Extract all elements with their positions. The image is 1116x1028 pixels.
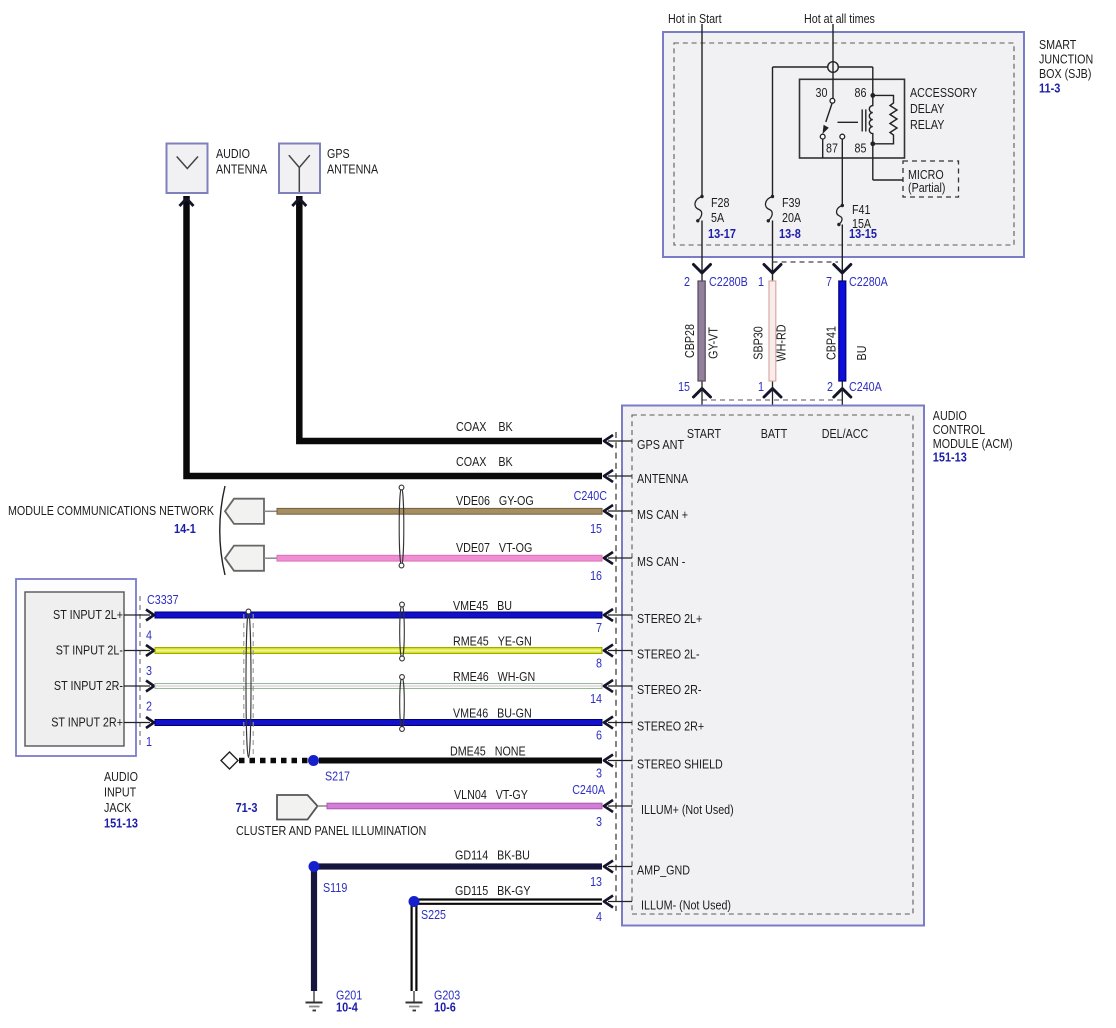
svg-text:87: 87 bbox=[826, 141, 838, 156]
svg-text:DME45 NONE: DME45 NONE bbox=[450, 744, 526, 759]
svg-text:RME45 YE-GN: RME45 YE-GN bbox=[453, 634, 532, 649]
svg-text:71-3: 71-3 bbox=[236, 800, 258, 815]
svg-text:F28: F28 bbox=[711, 195, 730, 210]
svg-text:S119: S119 bbox=[323, 880, 347, 895]
svg-text:13-15: 13-15 bbox=[849, 226, 877, 241]
svg-text:ANTENNA: ANTENNA bbox=[327, 162, 378, 177]
svg-text:C3337: C3337 bbox=[147, 592, 179, 607]
svg-text:15: 15 bbox=[590, 521, 602, 536]
svg-text:C240A: C240A bbox=[572, 782, 605, 797]
svg-text:13: 13 bbox=[590, 874, 602, 889]
svg-text:F41: F41 bbox=[852, 202, 871, 217]
svg-text:1: 1 bbox=[758, 274, 764, 289]
svg-text:C2280A: C2280A bbox=[849, 274, 888, 289]
svg-text:ILLUM- (Not Used): ILLUM- (Not Used) bbox=[641, 898, 731, 913]
svg-text:13-17: 13-17 bbox=[708, 226, 736, 241]
svg-text:BOX (SJB): BOX (SJB) bbox=[1039, 66, 1091, 81]
svg-text:F39: F39 bbox=[782, 195, 801, 210]
svg-text:151-13: 151-13 bbox=[104, 816, 138, 831]
svg-text:2: 2 bbox=[684, 274, 690, 289]
svg-text:CBP41: CBP41 bbox=[824, 326, 839, 360]
svg-text:BU: BU bbox=[854, 346, 869, 361]
svg-text:DEL/ACC: DEL/ACC bbox=[822, 426, 869, 441]
svg-text:VDE06 GY-OG: VDE06 GY-OG bbox=[456, 493, 534, 508]
svg-text:(Partial): (Partial) bbox=[908, 180, 946, 195]
svg-text:BATT: BATT bbox=[761, 426, 788, 441]
svg-text:ST INPUT 2R+: ST INPUT 2R+ bbox=[51, 715, 123, 730]
svg-text:CLUSTER AND PANEL ILLUMINATION: CLUSTER AND PANEL ILLUMINATION bbox=[236, 823, 426, 838]
svg-text:5A: 5A bbox=[711, 210, 724, 225]
svg-text:SMART: SMART bbox=[1039, 37, 1076, 52]
svg-text:START: START bbox=[687, 426, 721, 441]
svg-text:ACCESSORY: ACCESSORY bbox=[910, 85, 977, 100]
svg-text:STEREO 2R-: STEREO 2R- bbox=[637, 682, 701, 697]
svg-text:8: 8 bbox=[596, 656, 602, 671]
svg-text:WH-RD: WH-RD bbox=[774, 325, 789, 362]
svg-text:JUNCTION: JUNCTION bbox=[1039, 52, 1093, 67]
svg-text:15: 15 bbox=[678, 379, 690, 394]
svg-text:SBP30: SBP30 bbox=[751, 326, 766, 359]
svg-text:Hot at all times: Hot at all times bbox=[804, 11, 875, 26]
svg-text:MODULE COMMUNICATIONS NETWORK: MODULE COMMUNICATIONS NETWORK bbox=[8, 503, 214, 518]
svg-text:VLN04 VT-GY: VLN04 VT-GY bbox=[454, 787, 528, 802]
svg-text:MS CAN -: MS CAN - bbox=[637, 554, 685, 569]
svg-text:ANTENNA: ANTENNA bbox=[216, 162, 267, 177]
svg-text:1: 1 bbox=[758, 379, 764, 394]
svg-text:AMP_GND: AMP_GND bbox=[637, 863, 690, 878]
svg-text:2: 2 bbox=[827, 379, 833, 394]
svg-text:VME45 BU: VME45 BU bbox=[453, 598, 512, 613]
svg-text:ST INPUT 2R-: ST INPUT 2R- bbox=[54, 678, 123, 693]
svg-text:STEREO SHIELD: STEREO SHIELD bbox=[637, 757, 723, 772]
svg-text:20A: 20A bbox=[782, 210, 801, 225]
svg-text:C240C: C240C bbox=[574, 488, 607, 503]
svg-text:7: 7 bbox=[826, 274, 832, 289]
svg-text:GY-VT: GY-VT bbox=[706, 327, 721, 359]
svg-text:10-4: 10-4 bbox=[336, 1000, 359, 1015]
svg-text:30: 30 bbox=[816, 85, 828, 100]
svg-text:AUDIO: AUDIO bbox=[933, 408, 967, 423]
svg-text:GD115 BK-GY: GD115 BK-GY bbox=[455, 883, 531, 898]
svg-text:STEREO 2L-: STEREO 2L- bbox=[637, 647, 700, 662]
svg-text:AUDIO: AUDIO bbox=[104, 769, 138, 784]
svg-text:14-1: 14-1 bbox=[174, 521, 196, 536]
svg-text:COAX BK: COAX BK bbox=[456, 419, 513, 434]
svg-text:3: 3 bbox=[596, 814, 602, 829]
svg-text:6: 6 bbox=[596, 728, 602, 743]
svg-text:C2280B: C2280B bbox=[709, 274, 748, 289]
svg-text:JACK: JACK bbox=[104, 800, 132, 815]
svg-text:STEREO 2R+: STEREO 2R+ bbox=[637, 719, 704, 734]
svg-text:ANTENNA: ANTENNA bbox=[637, 471, 688, 486]
svg-text:16: 16 bbox=[590, 568, 602, 583]
svg-text:1: 1 bbox=[146, 734, 152, 749]
svg-text:ST INPUT 2L+: ST INPUT 2L+ bbox=[53, 607, 123, 622]
svg-text:ILLUM+ (Not Used): ILLUM+ (Not Used) bbox=[641, 802, 734, 817]
svg-text:3: 3 bbox=[596, 766, 602, 781]
svg-text:DELAY: DELAY bbox=[910, 101, 945, 116]
svg-text:3: 3 bbox=[146, 663, 152, 678]
svg-text:14: 14 bbox=[590, 691, 602, 706]
svg-text:7: 7 bbox=[596, 620, 602, 635]
svg-text:11-3: 11-3 bbox=[1039, 81, 1060, 96]
svg-text:S225: S225 bbox=[421, 907, 446, 922]
svg-text:151-13: 151-13 bbox=[933, 450, 967, 465]
svg-text:COAX BK: COAX BK bbox=[456, 454, 513, 469]
svg-text:ST INPUT 2L-: ST INPUT 2L- bbox=[56, 643, 123, 658]
svg-text:RELAY: RELAY bbox=[910, 117, 945, 132]
svg-text:Hot in Start: Hot in Start bbox=[668, 11, 722, 26]
svg-text:2: 2 bbox=[146, 699, 152, 714]
svg-text:CBP28: CBP28 bbox=[682, 324, 697, 358]
svg-text:AUDIO: AUDIO bbox=[216, 146, 250, 161]
svg-text:85: 85 bbox=[855, 141, 867, 156]
svg-text:RME46 WH-GN: RME46 WH-GN bbox=[453, 669, 535, 684]
svg-text:STEREO 2L+: STEREO 2L+ bbox=[637, 611, 702, 626]
svg-text:86: 86 bbox=[855, 85, 867, 100]
svg-text:4: 4 bbox=[596, 909, 602, 924]
svg-text:VDE07 VT-OG: VDE07 VT-OG bbox=[456, 540, 532, 555]
svg-text:GPS ANT: GPS ANT bbox=[637, 437, 684, 452]
svg-text:GD114 BK-BU: GD114 BK-BU bbox=[455, 848, 530, 863]
svg-text:INPUT: INPUT bbox=[104, 785, 136, 800]
svg-text:VME46 BU-GN: VME46 BU-GN bbox=[453, 706, 532, 721]
svg-text:MS CAN +: MS CAN + bbox=[637, 507, 688, 522]
svg-text:13-8: 13-8 bbox=[779, 226, 801, 241]
svg-text:CONTROL: CONTROL bbox=[933, 422, 985, 437]
svg-text:S217: S217 bbox=[325, 769, 350, 784]
svg-text:GPS: GPS bbox=[327, 146, 350, 161]
svg-text:C240A: C240A bbox=[849, 379, 882, 394]
svg-text:4: 4 bbox=[146, 628, 152, 643]
svg-text:10-6: 10-6 bbox=[434, 1000, 456, 1015]
